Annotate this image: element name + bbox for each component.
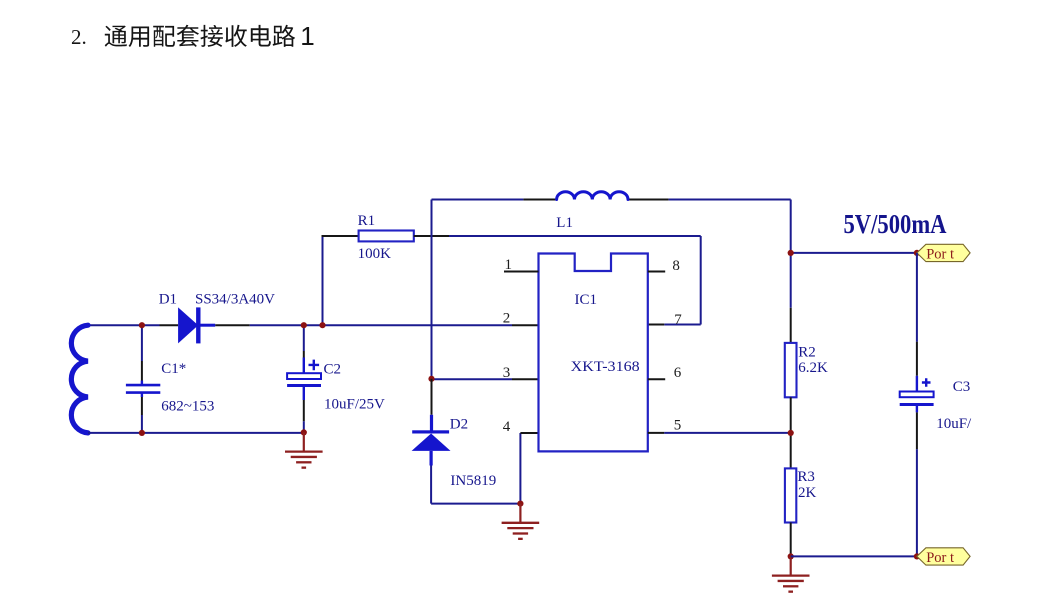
wire: R2 to R3 <box>790 397 792 468</box>
ground at C2 <box>285 432 323 467</box>
svg-text:3: 3 <box>503 365 511 381</box>
title: 2. 通用配套接收电路 1 <box>71 21 315 51</box>
port symbol Port (bottom) <box>917 548 970 566</box>
svg-text:SS34/3A40V: SS34/3A40V <box>195 292 275 308</box>
pin 1 stub <box>504 271 539 273</box>
inductor/coil antenna L (left) <box>71 325 88 433</box>
svg-text:IN5819: IN5819 <box>450 473 496 489</box>
wire: R1 right to pin7 drop <box>449 235 701 237</box>
C2 plus sign <box>309 360 320 371</box>
pin 6 stub <box>648 378 665 380</box>
svg-text:C2: C2 <box>324 361 342 377</box>
IC IC1 XKT-3168 body <box>539 254 648 452</box>
pin 8 stub <box>648 271 665 273</box>
svg-text:L1: L1 <box>556 215 573 231</box>
resistor R3 <box>785 468 796 522</box>
svg-text:2.: 2. <box>71 25 87 49</box>
wire: top rail y=199.5 <box>432 199 524 201</box>
svg-text:6: 6 <box>674 365 682 381</box>
node: junction C1 top <box>139 322 145 328</box>
resistor R2 <box>785 343 797 397</box>
svg-text:XKT-3168: XKT-3168 <box>571 359 640 375</box>
port symbol Port (top) <box>917 244 970 262</box>
wire: pin3 row <box>432 378 513 380</box>
node: junction bus/port1 <box>788 250 794 256</box>
svg-text:Por t: Por t <box>926 246 954 262</box>
node: junction R2/R3/pin5 <box>788 430 794 436</box>
svg-text:100K: 100K <box>358 246 392 262</box>
svg-text:R3: R3 <box>797 469 815 485</box>
capacitor C2 (polarized) <box>287 325 321 432</box>
svg-text:R2: R2 <box>798 345 816 361</box>
svg-text:R1: R1 <box>358 213 376 229</box>
svg-text:1: 1 <box>505 257 513 273</box>
wire: bottom-left rail y=432.9 <box>88 432 304 434</box>
svg-text:8: 8 <box>672 258 680 274</box>
capacitor C3 (polarized) <box>900 253 934 557</box>
wire: pin4 vertical <box>519 433 521 504</box>
C3 plus sign <box>922 378 931 387</box>
inductor L1 <box>557 192 628 200</box>
wire: R1 left branch vertical x=322.5 <box>322 236 324 325</box>
node: junction port2 <box>914 553 920 559</box>
node: junction C2 bottom / ground node <box>301 429 307 435</box>
svg-text:6.2K: 6.2K <box>798 360 828 376</box>
svg-text:5V/500mA: 5V/500mA <box>844 209 947 239</box>
wire: right bus corner <box>790 200 792 308</box>
wire: left vertical x=431.5 top-rail to pin3 node <box>431 200 433 379</box>
svg-text:7: 7 <box>674 312 682 328</box>
wire: R3 bottom lead <box>790 523 792 557</box>
svg-text:4: 4 <box>503 419 511 435</box>
svg-text:C3: C3 <box>953 379 971 395</box>
pin 5 stub and wire to bus <box>648 432 665 434</box>
ground at R3 <box>772 556 810 591</box>
node: junction C2 top <box>301 322 307 328</box>
node: junction port1 <box>914 250 920 256</box>
diode D2 <box>412 379 451 504</box>
svg-text:682~153: 682~153 <box>161 399 214 415</box>
wire: port1 row y=252.9 <box>791 252 917 254</box>
svg-text:D2: D2 <box>450 417 468 433</box>
svg-text:IC1: IC1 <box>575 292 598 308</box>
svg-text:5: 5 <box>674 417 682 433</box>
wire: main rail from coil top to IC pin2, y=325 <box>88 324 160 326</box>
ground at D2/pin4 <box>502 504 540 539</box>
svg-text:2: 2 <box>503 310 511 326</box>
node: junction D2/pin4 ground <box>517 501 523 507</box>
svg-text:Por t: Por t <box>926 550 954 566</box>
svg-text:2K: 2K <box>798 485 817 501</box>
diode D1 <box>178 307 215 343</box>
node: junction pin3/D2 <box>428 376 434 382</box>
svg-text:10uF/: 10uF/ <box>936 416 972 432</box>
node: junction R1 branch on rail <box>319 322 325 328</box>
svg-text:D1: D1 <box>159 292 177 308</box>
wire: bottom row y=556.4 <box>791 555 917 557</box>
svg-text:10uF/25V: 10uF/25V <box>324 397 385 413</box>
svg-text:C1*: C1* <box>161 361 186 377</box>
resistor R1 <box>322 231 450 242</box>
wire: D2 bottom to pin4 ground node <box>431 503 520 505</box>
node: junction R3 bottom / ground <box>788 553 794 559</box>
capacitor C1 <box>126 325 160 433</box>
svg-text:1: 1 <box>300 21 314 51</box>
node: junction C1 bottom <box>139 430 145 436</box>
